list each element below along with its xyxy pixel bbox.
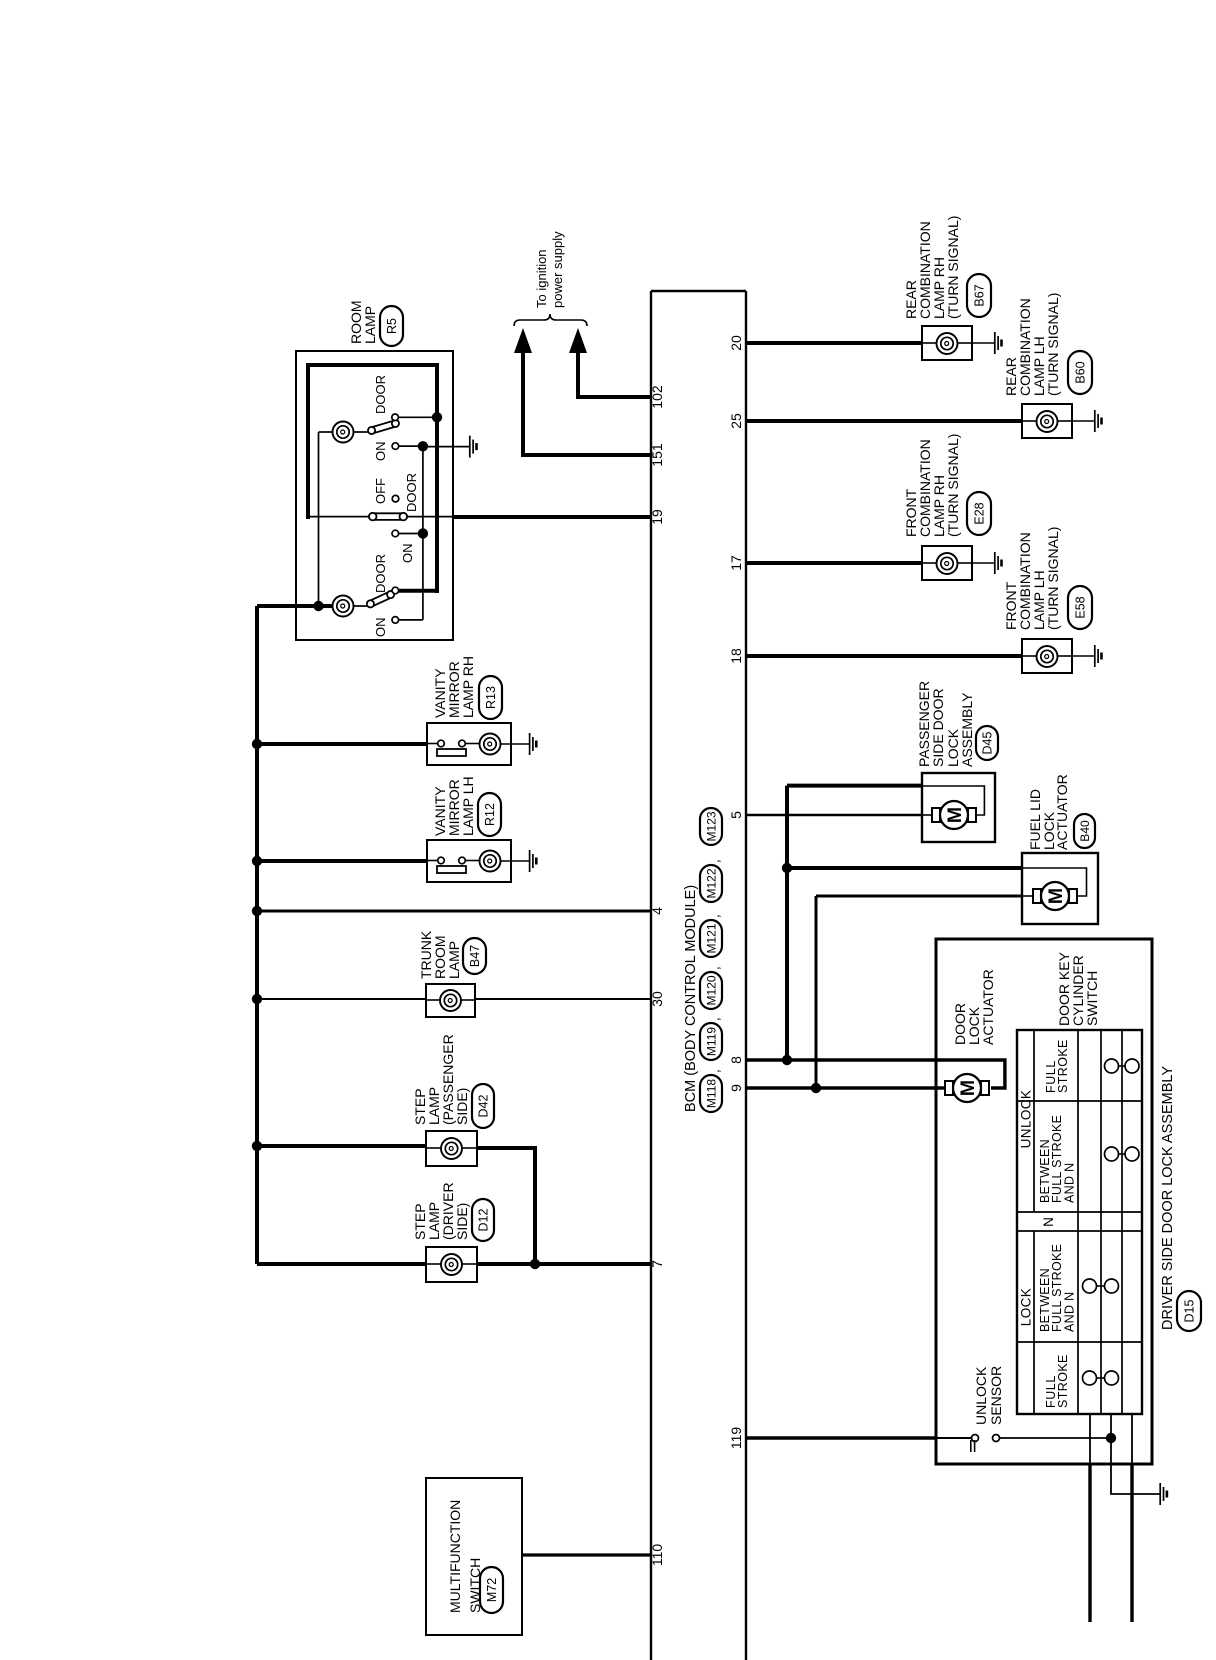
ground stem E58 — [1072, 655, 1095, 657]
wire table row lock (thin) — [1089, 1414, 1091, 1464]
svg-text:30: 30 — [649, 991, 665, 1007]
junction dot bus trunk room lamp — [252, 994, 262, 1004]
vanity LH bulb — [480, 851, 501, 872]
ground stem B60 — [1072, 420, 1095, 422]
svg-text:5: 5 — [728, 811, 744, 819]
svg-text:7: 7 — [649, 1260, 665, 1268]
svg-text:B40: B40 — [1078, 820, 1092, 842]
wire inside B40 to motor — [1022, 868, 1087, 896]
wire right DOOR contact to thick path — [398, 416, 437, 418]
E28 bulb — [922, 562, 937, 564]
contact pair unlock full-stroke — [1105, 1059, 1119, 1073]
room lamp center switch bar — [370, 513, 377, 520]
connector M119 — [700, 1023, 722, 1060]
wire pin to E28 lamp — [746, 561, 922, 565]
wire pin 151 to ignition power supply — [523, 353, 651, 455]
room lamp bulb right pivot — [354, 431, 369, 433]
wire table common to sensor junction — [1110, 1414, 1112, 1438]
junction dot unlock sensor — [1106, 1433, 1116, 1443]
room lamp right ON contact — [392, 443, 399, 450]
wire table row unlock (thick) — [1130, 1463, 1133, 1622]
junction dot bus vanity RH — [252, 739, 262, 749]
wire sensor junction to ground — [1111, 1438, 1160, 1494]
wire center ON contact down — [399, 533, 423, 535]
svg-text:LAMP RH: LAMP RH — [460, 656, 476, 718]
svg-text:UNLOCK: UNLOCK — [973, 1366, 989, 1425]
svg-text:LAMP LH: LAMP LH — [460, 776, 476, 836]
svg-text:M122: M122 — [704, 868, 718, 898]
wire bus to step lamp passenger — [257, 1144, 426, 1148]
room lamp switch left bar — [366, 590, 395, 608]
unlock sensor mark — [970, 1440, 972, 1452]
junction dot right DOOR wire — [432, 412, 442, 422]
ground stem room lamp — [423, 446, 470, 448]
svg-text:AND N: AND N — [1063, 1163, 1077, 1203]
svg-text:SENSOR: SENSOR — [988, 1366, 1004, 1425]
svg-text:19: 19 — [649, 509, 665, 525]
fuel lid lock actuator box B40 — [1022, 853, 1098, 924]
B60 bulb — [1022, 420, 1037, 422]
B67 bulb — [922, 342, 937, 344]
connector M123 — [700, 808, 722, 845]
svg-text:9: 9 — [728, 1084, 744, 1092]
svg-text:BCM (BODY CONTROL MODULE): BCM (BODY CONTROL MODULE) — [683, 885, 699, 1112]
ground B60 — [1094, 410, 1096, 432]
ground E28 — [994, 552, 996, 574]
vanity RH bulb — [480, 734, 501, 755]
svg-text:25: 25 — [728, 413, 744, 429]
vanity RH ground stem — [501, 743, 530, 745]
table row line 2 — [1077, 1030, 1079, 1414]
svg-text:ASSEMBLY: ASSEMBLY — [959, 692, 975, 767]
connector D45 — [976, 726, 998, 760]
svg-text:,: , — [707, 966, 722, 970]
connector R5 — [380, 306, 403, 346]
svg-text:D15: D15 — [1183, 1299, 1197, 1322]
B60 lamp box — [1022, 404, 1072, 438]
connector B60 — [1068, 351, 1092, 394]
door lock bus wire 1 — [785, 786, 789, 1060]
wire bus to vanity mirror lamp LH — [257, 859, 427, 863]
passenger side door lock assembly box D45 — [922, 773, 995, 842]
svg-text:AND N: AND N — [1063, 1292, 1077, 1332]
junction dot bus pin 4 — [252, 906, 262, 916]
connector R13 — [479, 676, 502, 719]
svg-text:N: N — [1041, 1217, 1056, 1227]
arrow to ignition (pin 151) — [514, 328, 532, 353]
svg-text:17: 17 — [728, 555, 744, 571]
svg-text:(TURN SIGNAL): (TURN SIGNAL) — [1045, 527, 1061, 630]
driver side door lock assembly box D15 — [936, 939, 1152, 1464]
wire pin 9 to door lock actuator — [746, 1086, 950, 1089]
room lamp bulb left pivot — [354, 605, 368, 607]
room lamp center OFF contact — [392, 495, 399, 502]
connector M118 — [700, 1075, 722, 1112]
svg-text:M: M — [1045, 888, 1067, 904]
svg-text:power supply: power supply — [550, 231, 565, 308]
svg-text:SIDE): SIDE) — [454, 1203, 470, 1240]
wire pin 102 to ignition power supply — [578, 353, 651, 397]
svg-text:D12: D12 — [477, 1208, 491, 1231]
wire table row lock (thick) — [1088, 1463, 1091, 1622]
svg-text:UNLOCK: UNLOCK — [1019, 1090, 1034, 1149]
svg-text:,: , — [707, 914, 722, 918]
ground B67 — [994, 332, 996, 354]
svg-text:E58: E58 — [1074, 596, 1088, 618]
wire table row unlock (thin) — [1131, 1414, 1133, 1464]
room lamp center ON contact — [392, 530, 399, 537]
wire between bulbs (thin) — [318, 432, 320, 606]
svg-text:8: 8 — [728, 1056, 744, 1064]
svg-text:To ignition: To ignition — [534, 249, 549, 308]
brace ignition power supply — [514, 314, 587, 326]
svg-text:DOOR: DOOR — [373, 554, 388, 593]
connector M120 — [700, 972, 722, 1009]
svg-text:SWITCH: SWITCH — [1084, 971, 1100, 1026]
vanity LH ground stem — [501, 860, 530, 862]
connector M72 — [480, 1567, 503, 1613]
room lamp bulb right — [333, 422, 354, 443]
wire thick bus to D45 — [787, 784, 923, 788]
connector M121 — [700, 920, 722, 957]
vanity RH switch — [427, 743, 438, 745]
E28 lamp box — [922, 546, 972, 580]
junction dot bus D42 — [252, 1141, 262, 1151]
vanity mirror lamp RH box R13 — [427, 723, 511, 765]
door lock bus wire 2 — [815, 896, 818, 1088]
connector B40 — [1074, 814, 1095, 848]
svg-text:B67: B67 — [973, 284, 987, 306]
svg-text:M120: M120 — [704, 975, 718, 1005]
wire pin to B67 lamp — [746, 341, 922, 345]
wire inside D45 to motor — [922, 814, 933, 816]
wire pin 5 to passenger door lock — [746, 814, 922, 817]
wire pin to E58 lamp — [746, 654, 1022, 658]
contact pair lock between — [1083, 1279, 1097, 1293]
E58 bulb — [1022, 655, 1037, 657]
connector M122 — [700, 865, 722, 902]
ground vanity RH — [529, 733, 531, 755]
svg-text:DRIVER SIDE DOOR LOCK ASSEMBLY: DRIVER SIDE DOOR LOCK ASSEMBLY — [1160, 1066, 1176, 1330]
door key cylinder switch table — [1017, 1030, 1142, 1414]
wire common ON line — [422, 534, 424, 620]
room lamp left DOOR contact — [392, 587, 399, 594]
connector D15 — [1177, 1291, 1201, 1331]
svg-text:STROKE: STROKE — [1056, 1039, 1070, 1093]
svg-text:B60: B60 — [1074, 361, 1088, 383]
svg-text:M: M — [957, 1080, 979, 1096]
svg-text:OFF: OFF — [373, 478, 388, 504]
svg-text:M: M — [944, 807, 966, 823]
svg-text:E28: E28 — [973, 502, 987, 524]
svg-text:ACTUATOR: ACTUATOR — [980, 969, 996, 1045]
junction dot bus vanity LH — [252, 856, 262, 866]
svg-text:,: , — [707, 1017, 722, 1021]
wire right ON contact down — [399, 445, 423, 447]
contact pair unlock between — [1105, 1147, 1119, 1161]
svg-text:B47: B47 — [468, 945, 482, 967]
svg-text:,: , — [707, 859, 722, 863]
svg-text:R5: R5 — [385, 318, 399, 334]
fuel lid lock motor — [1033, 889, 1041, 903]
unlock sensor contacts — [972, 1435, 979, 1442]
wire step lamp driver to pin 7 — [477, 1262, 651, 1266]
svg-text:STROKE: STROKE — [1056, 1354, 1070, 1408]
connector E58 — [1068, 586, 1092, 629]
E58 lamp box — [1022, 639, 1072, 673]
svg-text:DOOR: DOOR — [404, 473, 419, 512]
room lamp right DOOR contact — [392, 414, 399, 421]
svg-text:R13: R13 — [484, 686, 498, 709]
svg-text:SIDE DOOR: SIDE DOOR — [930, 688, 946, 767]
wire pin to B60 lamp — [746, 419, 1022, 423]
wire unlock sensor to junction — [1000, 1437, 1112, 1439]
table row line 4 — [1121, 1030, 1123, 1414]
junction dot bus2 pin9 — [811, 1083, 821, 1093]
interior lamp bus wire — [255, 606, 259, 1264]
wire bus to step lamp driver — [257, 1262, 426, 1266]
step lamp passenger bulb — [426, 1147, 441, 1149]
svg-text:(TURN SIGNAL): (TURN SIGNAL) — [945, 434, 961, 537]
door lock actuator motor — [945, 1081, 953, 1095]
svg-text:151: 151 — [649, 443, 665, 467]
ground room lamp — [469, 436, 471, 458]
svg-text:110: 110 — [649, 1544, 665, 1567]
svg-text:DOOR: DOOR — [373, 375, 388, 414]
wire multifunction switch to pin 110 — [522, 1553, 651, 1556]
svg-text:ON: ON — [400, 544, 415, 564]
svg-text:M72: M72 — [485, 1578, 499, 1602]
wire left DOOR contact to thick path — [399, 589, 439, 593]
room lamp center switch feed (thin) — [308, 516, 370, 518]
room lamp left ON contact — [392, 617, 399, 624]
svg-text:MULTIFUNCTION: MULTIFUNCTION — [447, 1500, 463, 1613]
junction dot step lamps — [530, 1259, 540, 1269]
trunk room lamp box B47 — [426, 984, 475, 1017]
svg-text:ACTUATOR: ACTUATOR — [1054, 774, 1070, 850]
svg-text:SIDE): SIDE) — [454, 1088, 470, 1125]
svg-text:M118: M118 — [704, 1079, 718, 1108]
wire room lamp pin 19 (thin inside box) — [407, 516, 454, 518]
room lamp bulb left — [333, 596, 354, 617]
svg-text:LAMP: LAMP — [362, 306, 378, 344]
svg-text:4: 4 — [649, 907, 665, 915]
junction dot center ON — [418, 528, 428, 538]
table row line 1 — [1033, 1231, 1035, 1414]
wire bus to vanity mirror lamp RH — [257, 742, 427, 746]
table column lines — [1017, 1341, 1142, 1343]
step lamp driver bulb — [426, 1263, 441, 1265]
junction dot bus1 pin8 — [782, 1055, 792, 1065]
table row line 3 — [1100, 1030, 1102, 1414]
arrow to ignition (pin 102) — [569, 328, 587, 353]
room lamp switch right bar — [368, 420, 400, 435]
room lamp box R5 — [296, 351, 453, 640]
svg-text:(TURN SIGNAL): (TURN SIGNAL) — [945, 216, 961, 319]
room lamp internal feed wire (thick) — [306, 363, 310, 519]
ground driver door lock — [1159, 1483, 1161, 1505]
svg-text:R12: R12 — [483, 803, 497, 826]
svg-text:LOCK: LOCK — [1019, 1288, 1034, 1326]
wire pin 8 to door lock actuator — [746, 1060, 1005, 1088]
connector B47 — [463, 938, 486, 974]
svg-text:M121: M121 — [704, 923, 718, 953]
vanity mirror lamp LH box R12 — [427, 840, 511, 882]
step lamp passenger box D42 — [426, 1131, 477, 1166]
svg-text:M119: M119 — [704, 1027, 718, 1056]
ground E58 — [1094, 645, 1096, 667]
wire room lamp pin 19 (thick) — [452, 515, 651, 519]
BCM (Body Control Module) box — [650, 291, 652, 1660]
svg-text:M123: M123 — [704, 811, 718, 841]
ground stem E28 — [972, 562, 995, 564]
connector B67 — [967, 274, 991, 317]
svg-text:102: 102 — [649, 385, 665, 409]
passenger door lock motor — [932, 808, 940, 822]
wire trunk room lamp to pin 30 — [475, 998, 651, 1000]
connector D12 — [472, 1199, 494, 1241]
trunk room lamp bulb — [426, 999, 440, 1001]
wire step lamp passenger to junction — [477, 1148, 535, 1264]
svg-text:18: 18 — [728, 648, 744, 664]
contact pair lock full-stroke — [1083, 1371, 1097, 1385]
wire ON common to ground tap — [422, 446, 424, 533]
connector E28 — [967, 492, 991, 535]
step lamp driver box D12 — [426, 1247, 477, 1282]
multifunction switch box M72 — [426, 1478, 522, 1635]
wire bus to pin 4 — [257, 910, 651, 913]
wire bus to lower bulb — [257, 604, 333, 608]
svg-text:D42: D42 — [477, 1094, 491, 1117]
ground vanity LH — [529, 850, 531, 872]
svg-text:D45: D45 — [981, 731, 995, 754]
junction dot bus1 fuel lid — [782, 863, 792, 873]
svg-text:20: 20 — [728, 335, 744, 351]
wire bus2 to fuel lid actuator — [816, 895, 1022, 898]
wire bus1 to fuel lid lock actuator — [787, 866, 1022, 870]
svg-text:,: , — [707, 1069, 722, 1073]
svg-text:(TURN SIGNAL): (TURN SIGNAL) — [1045, 293, 1061, 396]
B67 lamp box — [922, 326, 972, 360]
svg-text:ON: ON — [373, 442, 388, 462]
connector R12 — [478, 793, 501, 836]
wire bus to trunk room lamp — [257, 998, 427, 1000]
ground stem B67 — [972, 342, 995, 344]
svg-text:119: 119 — [728, 1427, 744, 1450]
svg-text:LAMP: LAMP — [446, 941, 462, 979]
wire pin 119 to unlock sensor — [746, 1436, 937, 1439]
junction dot room lamp feed — [313, 601, 323, 611]
connector D42 — [472, 1084, 494, 1128]
svg-text:ON: ON — [373, 618, 388, 638]
vanity LH switch — [427, 860, 438, 862]
junction dot ground tap — [418, 441, 428, 451]
